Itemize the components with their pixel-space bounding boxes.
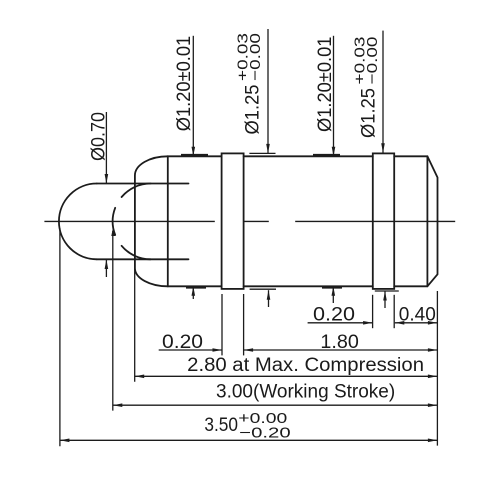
arrowhead 0.20L right [213,348,223,352]
arrowhead 0.40 left [395,321,405,325]
lower arrow tail dia 1.25 second [384,291,386,308]
arrowhead 2.80 left [135,375,145,379]
ext line 2.80 left [134,252,136,382]
plunger cylinder lines [97,184,189,260]
svg-text:3.50: 3.50 [204,415,238,436]
arrowhead 0.20R right [363,321,373,325]
arrowhead dia1.20b down [332,147,336,157]
arrowhead dia1.20a up [192,286,196,296]
arrowhead dia0.70 down [105,174,109,184]
arrowhead stroke apex up [111,227,115,237]
svg-text:−0.00: −0.00 [247,33,264,81]
arrowhead dia0.70 up [105,260,109,270]
svg-text:0.20: 0.20 [313,305,355,326]
ring R1 top ext line [249,152,275,154]
ring R1 crimp band [222,153,244,289]
lower arrow tail dia 1.25 first [268,290,270,307]
arrowhead 3.00 right [428,403,438,407]
svg-text:3.00(Working Stroke): 3.00(Working Stroke) [216,382,395,403]
arrowhead dia1.20b up [332,286,336,296]
arrowhead 3.00 left [113,403,123,407]
ring R2 bottom ext line [375,290,399,292]
arrowhead 3.50 left [60,439,70,443]
dim line 0.20 right row [308,322,438,324]
ext line ring R2 left [372,295,374,328]
svg-text:Ø0.70: Ø0.70 [88,112,109,161]
lower arrow tail dia 1.20 first [192,286,194,299]
leader line dia 1.20 second [333,36,335,156]
plunger free dome [59,184,97,260]
barrel top line [168,155,428,157]
leader line dia 1.25 second [382,31,384,153]
barrel cap left outline [135,156,168,286]
arrowhead dia1.25b up [383,291,387,301]
lower arrow tail dia 0.70 [105,260,107,278]
ext line ring R1 right [243,294,245,355]
barrel cap boundary line [167,156,169,286]
edge tick dia1.20 second top [313,154,340,156]
svg-text:1.80: 1.80 [320,332,358,353]
dim line 3.50 row [60,439,438,441]
svg-text:−0.20: −0.20 [239,425,291,442]
svg-text:Ø1.25: Ø1.25 [243,85,264,135]
barrel right end chamfer [427,156,437,286]
svg-text:Ø1.25: Ø1.25 [358,88,379,138]
arrowhead dia1.25a down [266,144,270,154]
arrowhead dia1.25a up [267,290,271,300]
edge tick dia1.20 second bottom [322,287,342,289]
arrowhead 1.80 right [428,348,438,352]
ext line ring R1 left [221,294,223,355]
svg-text:0.20: 0.20 [162,332,203,353]
dim line 0.20 left and 1.80 row [159,349,438,351]
svg-text:−0.00: −0.00 [364,36,381,84]
arrowhead 2.80 right [428,375,438,379]
arrowhead 0.40 right [428,321,438,325]
ext line ring R2 right [393,295,395,328]
arrowhead 3.50 right [428,439,438,443]
edge tick dia1.20 first top [181,154,208,156]
arrowhead 1.80 left [244,348,254,352]
ext line right face [436,291,438,446]
leader line dia 1.20 first [192,36,194,156]
barrel bottom line [168,285,428,287]
ext line 3.00 left [112,231,114,411]
ring R2 crimp band [373,153,394,289]
arrowhead dia1.25b down [381,143,385,153]
plunger compressed dome (alternate position) [122,184,151,198]
dim line 2.80 row [135,375,438,377]
svg-text:0.40: 0.40 [399,305,436,326]
svg-text:Ø1.20±0.01: Ø1.20±0.01 [174,36,195,131]
svg-text:2.80 at Max. Compression: 2.80 at Max. Compression [187,355,424,376]
lower arrow tail dia 1.20 second [332,286,334,303]
centerline [44,220,455,222]
arrowhead dia1.20a down [192,147,196,157]
ext line 3.50 left [59,228,61,446]
edge tick dia1.20 first bottom [186,287,206,289]
svg-text:Ø1.20±0.01: Ø1.20±0.01 [315,37,336,132]
leader line dia 1.25 first [267,29,269,153]
leader line dia 0.70 [105,112,107,183]
ring R1 bottom ext line [250,288,276,290]
dim line 3.00 row [113,404,438,406]
